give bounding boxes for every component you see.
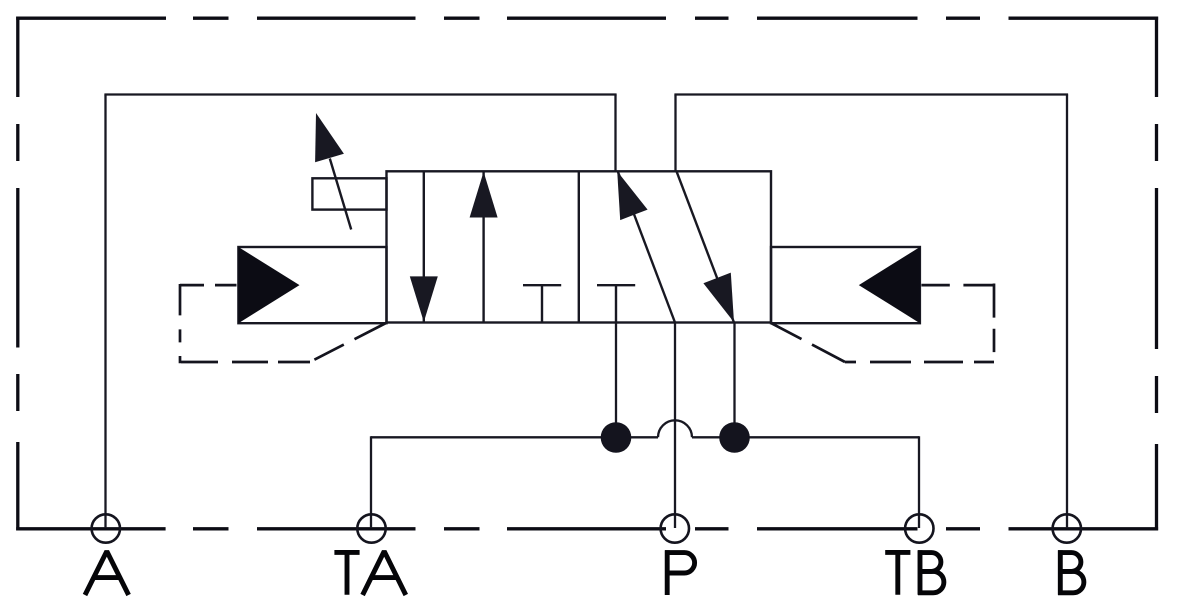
wire A drop to valve top bbox=[614, 95, 616, 172]
right solenoid box bbox=[771, 247, 920, 323]
pilot box bbox=[312, 178, 386, 209]
junction dot right bbox=[719, 422, 750, 453]
port circle TA bbox=[357, 514, 385, 542]
outer dashed border bottom bbox=[16, 527, 1158, 530]
position 2 up-diagonal arrowhead bbox=[617, 171, 647, 220]
position 1 blocked port T symbol bbox=[523, 285, 561, 322]
wire valve B-flow to junction bbox=[733, 323, 735, 438]
outer dashed border top bbox=[16, 17, 1158, 20]
position 2 down-diagonal flow line bbox=[677, 171, 735, 322]
wire valve T-port to junction bbox=[615, 323, 617, 438]
wire A horizontal run bbox=[104, 93, 616, 95]
outer dashed border right bbox=[1155, 17, 1158, 531]
position 1 down arrowhead bbox=[410, 276, 438, 322]
junction dot left bbox=[601, 422, 632, 453]
right solenoid triangle bbox=[859, 247, 920, 323]
position 2 down-diagonal arrowhead bbox=[703, 273, 734, 323]
label B bbox=[1058, 550, 1084, 595]
wire tank TB riser bbox=[918, 436, 920, 528]
port circle B bbox=[1053, 514, 1081, 542]
left proportional envelope dashed bbox=[180, 284, 386, 363]
valve position divider bbox=[578, 171, 580, 322]
wire P riser bbox=[674, 323, 676, 529]
position 2 up-diagonal flow line bbox=[618, 172, 675, 323]
label A bbox=[85, 551, 129, 595]
right proportional envelope dashed bbox=[772, 284, 995, 363]
port circle P bbox=[661, 514, 689, 542]
port circle A bbox=[92, 514, 120, 542]
wire B horizontal run bbox=[674, 93, 1068, 95]
wire A riser bbox=[104, 95, 106, 529]
position 1 up-flow line bbox=[482, 171, 484, 322]
valve body outline bbox=[387, 171, 772, 322]
label P bbox=[665, 550, 695, 595]
position 1 up arrowhead bbox=[470, 172, 498, 218]
wire tank gallery right bbox=[692, 436, 919, 438]
pilot arrow shaft bbox=[330, 159, 351, 230]
wire tank gallery left bbox=[371, 436, 658, 438]
position 1 down-flow line bbox=[423, 171, 425, 322]
pilot arrowhead bbox=[315, 113, 344, 162]
wire crossover hump over P bbox=[658, 420, 692, 437]
wire B stub up from valve bbox=[674, 95, 676, 172]
position 2 blocked port T symbol bbox=[597, 285, 635, 322]
left solenoid triangle bbox=[238, 247, 299, 323]
port circle TB bbox=[905, 514, 933, 542]
wire B riser down to port bbox=[1066, 95, 1068, 529]
label TB bbox=[885, 550, 944, 595]
left solenoid box bbox=[238, 247, 386, 323]
wire tank TA riser bbox=[370, 436, 372, 528]
outer dashed border left bbox=[16, 17, 19, 531]
label TA bbox=[334, 551, 405, 595]
